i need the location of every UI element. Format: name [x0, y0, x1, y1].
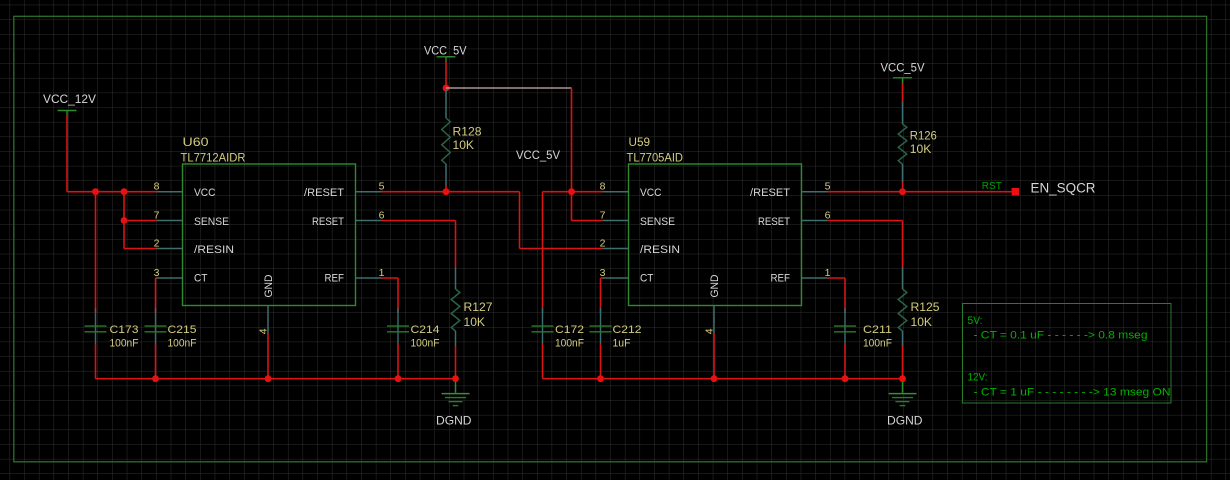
svg-text:C173: C173 — [110, 324, 139, 336]
junction — [443, 85, 450, 92]
pin 3 (CT) — [154, 267, 208, 285]
svg-text:VCC_5V: VCC_5V — [516, 150, 560, 162]
svg-text:TL7705AID: TL7705AID — [627, 153, 684, 165]
junction — [597, 375, 604, 382]
svg-text:10K: 10K — [910, 144, 932, 156]
svg-text:C211: C211 — [863, 324, 892, 336]
svg-text:EN_SQCR: EN_SQCR — [1031, 181, 1096, 196]
svg-text:4: 4 — [258, 328, 270, 334]
pin 5 (/RESET) — [750, 181, 831, 200]
note box — [963, 304, 1172, 404]
svg-text:3: 3 — [154, 267, 160, 279]
svg-text:5: 5 — [825, 181, 831, 193]
power flag VCC_5V — [881, 63, 925, 84]
svg-text:100nF: 100nF — [411, 338, 440, 350]
svg-text:VCC_5V: VCC_5V — [424, 46, 467, 58]
wire down to pin 7 — [571, 192, 573, 221]
junction — [443, 188, 450, 195]
wire VCC_12V down — [66, 116, 68, 192]
wire VCC_5V down — [902, 83, 904, 102]
wire ground bus right — [543, 378, 903, 380]
wire C214 to ground bus — [397, 344, 399, 379]
pin 4 (GND) — [258, 274, 276, 334]
svg-text:2: 2 — [154, 237, 160, 249]
wire U60 pin 4 to ground bus — [267, 334, 269, 379]
wire down to C214 — [397, 278, 399, 313]
svg-text:CT: CT — [640, 273, 654, 285]
wire C211 to ground bus — [844, 344, 846, 379]
svg-text:R128: R128 — [453, 127, 482, 139]
wire C212 to ground bus — [600, 344, 602, 379]
wire U60 pin 3 down to C215 — [156, 277, 157, 279]
svg-text:7: 7 — [154, 209, 160, 221]
wire down to pin 2 row — [123, 221, 125, 249]
svg-text:U59: U59 — [629, 137, 651, 149]
svg-text:SENSE: SENSE — [194, 216, 229, 228]
pin 3 (CT) — [600, 267, 654, 285]
svg-text:2: 2 — [600, 237, 606, 249]
wire to U59 pin 7 — [572, 220, 603, 222]
svg-text:VCC: VCC — [194, 187, 216, 199]
pin 4 (GND) — [704, 274, 722, 334]
svg-text:RST: RST — [982, 181, 1002, 192]
junction — [899, 188, 906, 195]
op-amp-style IC U60 body — [183, 164, 356, 306]
svg-text:REF: REF — [771, 273, 791, 285]
svg-text:100nF: 100nF — [110, 338, 139, 350]
power flag VCC_5V — [424, 46, 467, 63]
svg-text:VCC_5V: VCC_5V — [881, 63, 925, 75]
svg-text:RESET: RESET — [758, 216, 790, 228]
power flag VCC_12V — [43, 94, 96, 116]
junction — [121, 188, 128, 195]
svg-text:SENSE: SENSE — [640, 216, 675, 228]
capacitor C211 — [834, 308, 856, 345]
wire ground bus left — [96, 378, 456, 380]
resistor R125 — [898, 267, 907, 346]
svg-text:GND: GND — [263, 274, 275, 297]
wire VCC_12V rail down to C173 — [95, 192, 97, 313]
wire C215 to ground bus — [155, 344, 157, 379]
wire to U60 pin 2 — [124, 248, 157, 250]
svg-text:R127: R127 — [464, 302, 493, 314]
wire U60 pin 5 /RESET out — [382, 191, 520, 193]
svg-text:7: 7 — [600, 209, 606, 221]
capacitor C212 — [590, 308, 612, 345]
junction — [568, 188, 575, 195]
wire down to R127 — [455, 221, 457, 268]
op-amp-style IC U59 body — [629, 164, 802, 306]
wire C172 to ground bus — [542, 344, 544, 379]
pin 6 (RESET) — [758, 209, 831, 228]
capacitor C214 — [387, 308, 409, 345]
junction — [121, 217, 128, 224]
wire U59 pin 1 REF — [828, 277, 846, 279]
wire VCC_12V to U60 pin 8 — [67, 191, 157, 193]
capacitor C173 — [85, 308, 107, 345]
wire down to C211 — [844, 278, 846, 313]
pin 2 (/RESIN) — [600, 237, 680, 256]
pin 8 (VCC) — [154, 181, 216, 200]
wire U60 pin 1 REF — [382, 277, 399, 279]
junction — [452, 375, 459, 382]
resistor R128 — [442, 90, 451, 192]
svg-text:C214: C214 — [411, 324, 440, 336]
svg-text:- CT = 0.1 uF - - - - - -> 0.8: - CT = 0.1 uF - - - - - -> 0.8 mseg — [974, 330, 1148, 342]
svg-text:RESET: RESET — [312, 216, 344, 228]
junction — [152, 375, 159, 382]
svg-text:/RESET: /RESET — [304, 187, 344, 199]
wire down to U59 pin 8 net — [571, 88, 573, 192]
svg-text:12V:: 12V: — [968, 372, 988, 384]
svg-text:5: 5 — [379, 181, 385, 193]
junction — [265, 375, 272, 382]
svg-text:VCC: VCC — [640, 187, 662, 199]
svg-text:100nF: 100nF — [863, 338, 892, 350]
svg-text:C215: C215 — [168, 324, 197, 336]
pin 7 (SENSE) — [600, 209, 675, 228]
svg-text:C212: C212 — [613, 324, 642, 336]
svg-text:C172: C172 — [555, 324, 584, 336]
pin 5 (/RESET) — [304, 181, 385, 200]
resistor R127 — [451, 267, 460, 346]
pin 7 (SENSE) — [154, 209, 229, 228]
resistor R126 — [898, 102, 907, 192]
junction — [92, 188, 99, 195]
wire to pin 7 row — [123, 192, 125, 221]
wire down to R125 — [902, 221, 904, 268]
svg-text:10K: 10K — [453, 140, 475, 152]
junction — [842, 375, 849, 382]
wire U59 pin 6 RESET — [828, 220, 903, 222]
wire across pin 8 row — [543, 191, 603, 193]
wire C173 to ground bus — [95, 344, 97, 379]
wire down to pin2 row of U59 — [519, 192, 521, 249]
wire to U59 pin 2 — [520, 248, 603, 250]
svg-text:CT: CT — [194, 273, 208, 285]
svg-text:DGND: DGND — [436, 415, 472, 428]
svg-text:6: 6 — [379, 209, 385, 221]
pin 2 (/RESIN) — [154, 237, 234, 256]
port EN_SQCR — [1012, 188, 1020, 196]
svg-text:- CT = 1 uF - - - - - - - -> 1: - CT = 1 uF - - - - - - - -> 13 mseg ON — [974, 387, 1171, 399]
svg-text:3: 3 — [600, 267, 606, 279]
ground DGND — [442, 382, 470, 406]
svg-text:1uF: 1uF — [613, 338, 631, 350]
junction — [711, 375, 718, 382]
pin 8 (VCC) — [600, 181, 662, 200]
pin 1 (REF) — [325, 267, 385, 285]
svg-text:10K: 10K — [911, 317, 933, 329]
svg-text:U60: U60 — [183, 137, 209, 149]
wire U59 pin 4 to ground bus — [713, 334, 715, 379]
svg-text:100nF: 100nF — [168, 338, 197, 350]
svg-text:R126: R126 — [910, 131, 937, 143]
svg-text:GND: GND — [709, 274, 721, 297]
svg-text:1: 1 — [825, 267, 831, 279]
svg-text:DGND: DGND — [887, 415, 923, 428]
svg-text:/RESET: /RESET — [750, 187, 790, 199]
pin 1 (REF) — [771, 267, 831, 285]
wire U59 pin 3 down to C212 — [601, 277, 603, 279]
svg-text:5V:: 5V: — [968, 315, 983, 327]
wire to U60 pin 7 — [124, 220, 157, 222]
junction — [899, 375, 906, 382]
svg-text:/RESIN: /RESIN — [194, 244, 234, 256]
wire R125 to ground bus — [902, 346, 904, 379]
wire VCC_5V over to U59 rail — [446, 87, 572, 89]
svg-text:8: 8 — [154, 181, 160, 193]
junction — [395, 375, 402, 382]
svg-text:TL7712AIDR: TL7712AIDR — [181, 153, 246, 165]
capacitor C172 — [532, 308, 554, 345]
svg-text:100nF: 100nF — [555, 338, 584, 350]
wire down to C172 — [542, 192, 544, 313]
svg-text:VCC_12V: VCC_12V — [43, 94, 96, 106]
wire U60 pin 6 RESET — [382, 220, 456, 222]
svg-text:R125: R125 — [911, 302, 940, 314]
wire U59 pin 5 /RESET out — [828, 191, 1012, 193]
svg-text:REF: REF — [325, 273, 345, 285]
pin 6 (RESET) — [312, 209, 385, 228]
svg-text:6: 6 — [825, 209, 831, 221]
svg-text:4: 4 — [704, 328, 716, 334]
svg-text:1: 1 — [379, 267, 385, 279]
svg-text:/RESIN: /RESIN — [640, 244, 680, 256]
capacitor C215 — [145, 308, 167, 345]
svg-text:8: 8 — [600, 181, 606, 193]
wire VCC_5V to junction — [445, 62, 447, 88]
wire R127 to ground bus — [455, 346, 457, 379]
ground DGND — [889, 382, 917, 406]
svg-text:10K: 10K — [464, 317, 486, 329]
